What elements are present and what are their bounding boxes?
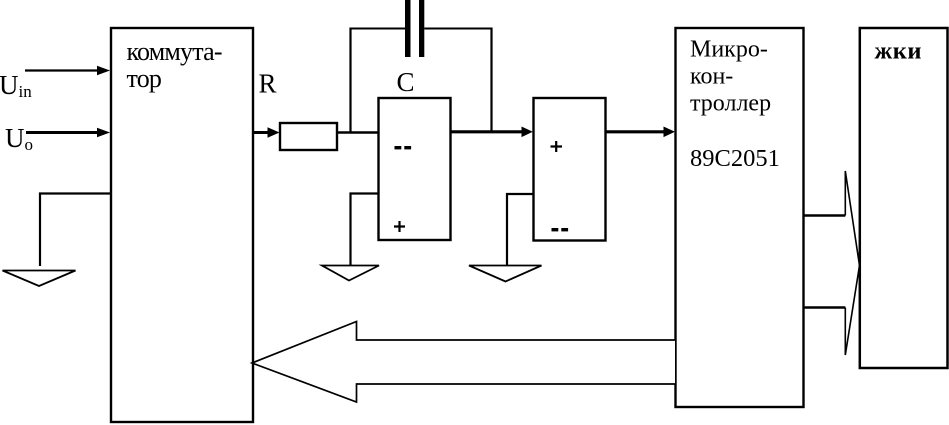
block U4 микроконтроллер 89C2051	[676, 28, 804, 407]
svg-text:R: R	[259, 69, 277, 99]
wire feedback top left	[350, 28, 406, 30]
capacitor C right plate	[419, 0, 424, 57]
label comparator inverting input - -	[552, 228, 559, 231]
svg-text:коммута-: коммута-	[127, 37, 222, 66]
wire microcontroller to LCD bus stub top	[804, 214, 847, 216]
wire feedback left vertical	[349, 28, 351, 134]
svg-text:тор: тор	[127, 64, 162, 93]
ground GND1	[3, 271, 76, 287]
block U1 коммутатор (analog switch)	[111, 28, 253, 422]
resistor R	[280, 123, 337, 150]
wire Uo input arrow	[26, 131, 99, 134]
label integrator inverting input - -	[395, 146, 402, 149]
svg-text:Uo: Uo	[5, 123, 33, 154]
svg-text:Uin: Uin	[0, 70, 32, 101]
wire Uin input arrow	[25, 69, 99, 71]
wire feedback right vertical	[490, 28, 492, 133]
wire resistor to integrator input	[337, 131, 378, 133]
svg-text:жки: жки	[875, 38, 923, 65]
wire comparator output to microcontroller arrow	[606, 130, 666, 133]
wire commutator ground lead	[40, 194, 110, 267]
capacitor C left plate	[405, 0, 411, 57]
ground GND2	[322, 266, 379, 281]
bus arrow microcontroller to commutator (hollow block arrow)	[252, 322, 675, 403]
wire feedback top right	[424, 28, 492, 30]
svg-text:Микро-: Микро-	[690, 37, 768, 63]
wire microcontroller to LCD bus stub bottom	[804, 306, 847, 308]
ground GND3	[469, 266, 542, 282]
wire integrator + input to ground	[351, 194, 379, 266]
wire commutator to resistor arrow	[253, 131, 269, 134]
label integrator non-inverting input +	[394, 221, 405, 232]
bus arrow microcontroller to LCD (hollow arrowhead)	[845, 171, 859, 355]
label comparator non-inverting input +	[551, 141, 563, 152]
op-amp U2 integrator box	[379, 98, 451, 240]
wire integrator output to comparator arrow	[451, 130, 524, 133]
svg-text:кон-: кон-	[690, 64, 733, 90]
wire comparator - input to ground	[507, 194, 533, 265]
svg-text:троллер: троллер	[690, 91, 771, 117]
svg-text:89C2051: 89C2051	[690, 145, 780, 172]
op-amp U3 comparator box	[534, 98, 606, 241]
svg-text:C: C	[397, 67, 415, 97]
block U5 ЖКИ (LCD display)	[860, 28, 948, 368]
